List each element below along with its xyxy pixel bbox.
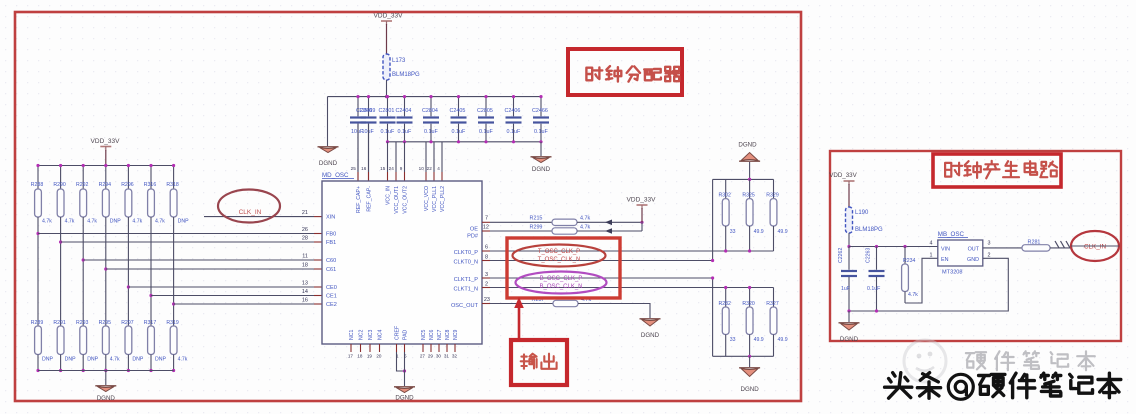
svg-text:L190: L190 [855,210,869,216]
wire top-group left drop [711,179,714,262]
watermark faint text [966,351,1095,370]
wire pull-down stub R291 [59,355,62,373]
svg-text:DNP: DNP [110,219,121,225]
wire bot-group left rise [711,276,714,356]
wire DGND branch (cap row right) [540,142,542,156]
svg-text:R297: R297 [121,320,134,326]
svg-text:VDD_33V: VDD_33V [627,197,657,204]
svg-text:R327: R327 [766,301,779,307]
svg-text:R319: R319 [166,320,179,326]
svg-text:16: 16 [302,298,308,304]
svg-text:R299: R299 [530,224,543,230]
wire column 4 [105,217,107,326]
wire net CLK_IN [204,216,322,218]
wire L190 to VIN bus [847,233,850,248]
svg-text:VCC_OUT2: VCC_OUT2 [403,186,409,214]
svg-text:DGND: DGND [740,386,759,393]
wire GND return [847,258,1008,312]
svg-text:33: 33 [730,229,736,235]
svg-text:DGND: DGND [738,142,757,149]
svg-text:VCC_PLL2: VCC_PLL2 [440,186,446,212]
pin name NC8 [445,330,451,340]
pin 21 label [302,210,308,216]
svg-text:VCC_IN: VCC_IN [386,186,392,205]
resistor R293 [76,320,99,363]
svg-text:19: 19 [367,354,373,359]
svg-text:CLKT0_P: CLKT0_P [454,250,479,256]
pin 2 label [988,252,991,258]
pin name FB1 [326,240,336,246]
svg-text:1: 1 [930,252,933,258]
svg-text:4.7k: 4.7k [580,225,590,231]
ground DGND (cap row left) [318,147,339,167]
svg-text:OE: OE [470,227,478,233]
node row5 junction [127,285,130,288]
svg-text:1uF: 1uF [841,286,850,292]
wire pull-up stub R316 [149,164,152,189]
svg-text:29: 29 [428,354,434,359]
pin 26 label [302,227,308,233]
pin name REF_CAP- [367,186,373,212]
node row6 junction [149,294,152,297]
svg-text:33: 33 [730,337,736,343]
resistor R316 [144,182,165,225]
resistor R289 [31,320,54,363]
svg-text:R318: R318 [166,182,179,188]
svg-text:REF_CAP-: REF_CAP- [367,186,373,212]
wire VCC pin 2 [387,142,389,172]
svg-text:DGND: DGND [395,395,414,402]
svg-text:C2801: C2801 [379,108,395,114]
pin name OSC_OUT [451,303,479,309]
capacitor C2406 [505,95,522,142]
svg-text:C2466: C2466 [532,108,548,114]
pin stub top x358 [357,172,359,181]
pin 14 label [302,289,308,295]
pin name XIN [326,215,335,221]
resistor R282 [718,288,735,357]
svg-text:NC5: NC5 [421,330,427,340]
svg-text:26: 26 [302,227,308,233]
pin name VCC_VCO [424,186,430,211]
svg-text:PD#: PD# [467,234,479,240]
wire OUT to R281 [983,247,1022,249]
svg-text:18: 18 [302,263,308,269]
svg-text:R290: R290 [53,182,66,188]
svg-text:14: 14 [302,289,308,295]
wire column 3 [82,217,84,326]
svg-text:BLM18PG: BLM18PG [392,72,420,78]
wire pull-up stub R290 [59,164,62,189]
svg-text:GND: GND [967,257,979,263]
pin name CLKT0_N [453,260,478,266]
svg-text:30: 30 [436,354,442,359]
pin name C60 [326,258,336,264]
svg-text:0.1uF: 0.1uF [381,129,395,135]
svg-text:R292: R292 [76,182,89,188]
svg-text:NC1: NC1 [349,330,355,340]
pin stub top x404.5 [404,172,406,181]
resistor R296 [121,182,142,225]
svg-text:XIN: XIN [326,215,335,221]
svg-text:NC9: NC9 [453,330,459,340]
svg-text:R288: R288 [31,182,44,188]
wire R234 to EN [905,258,938,303]
pin stub top x387.5 [387,172,389,181]
svg-text:C2263: C2263 [866,248,872,263]
svg-text:NC7: NC7 [437,330,443,340]
svg-text:4: 4 [930,241,933,247]
svg-text:MD_OSC: MD_OSC [322,172,349,179]
wire pull-up stub R292 [82,164,85,189]
pin stub bottom NC2 [360,344,362,352]
svg-text:9: 9 [400,166,403,171]
pin name CE0 [326,285,337,291]
pin stub top x434 [433,172,435,181]
svg-text:C2262: C2262 [838,248,844,263]
svg-text:4.7k: 4.7k [42,219,52,225]
svg-text:FB1: FB1 [326,240,336,246]
pin 1 label [930,252,933,258]
wire column 7 [173,217,175,326]
svg-text:DGND: DGND [532,166,551,173]
inductor L173 [383,54,420,80]
svg-text:R294: R294 [99,182,112,188]
svg-text:R289: R289 [31,320,44,326]
svg-text:4: 4 [437,166,440,171]
svg-text:OSC_OUT: OSC_OUT [451,303,479,309]
pin numbers (chip top) [351,166,441,171]
svg-text:C2404: C2404 [396,108,412,114]
clock generator frame [830,151,1121,341]
svg-text:15: 15 [380,166,386,171]
capacitor C2469 [360,95,377,181]
pin stub bottom NC4 [379,344,381,352]
pin name CE2 [326,302,337,308]
resistor R325 [742,179,763,251]
svg-text:R296: R296 [121,182,134,188]
pin 6 wire CLKT0_P [482,245,774,252]
resistor R329 [766,179,787,251]
svg-text:CREF: CREF [395,326,401,340]
svg-text:DNP: DNP [87,357,98,363]
pin stub bottom NC6 [430,344,432,352]
wire L173 to bus [385,80,388,98]
svg-text:FB0: FB0 [326,232,336,238]
svg-text:4.7k: 4.7k [908,292,918,298]
annotation arrow [514,297,524,339]
svg-text:C60: C60 [326,258,336,264]
svg-text:VCC_VCO: VCC_VCO [424,186,430,211]
wire column 2 [60,217,62,326]
svg-text:R325: R325 [742,193,755,199]
svg-text:BLM18PG: BLM18PG [855,227,883,233]
wire signal row 1 [38,233,322,235]
svg-text:13: 13 [302,281,308,287]
pin stub top x368.5 [368,172,370,181]
svg-text:0.1uF: 0.1uF [424,129,438,135]
svg-text:C2805: C2805 [477,108,493,114]
svg-text:CLK_IN: CLK_IN [1084,244,1107,251]
capacitor C2262 [838,247,857,312]
svg-text:PAD: PAD [403,329,409,340]
pin 4 label [930,241,933,247]
svg-text:11: 11 [302,254,308,260]
svg-text:0.1uF: 0.1uF [398,129,412,135]
power VDD_33V (pullup) [627,197,657,232]
svg-text:NC4: NC4 [378,330,384,340]
resistor R318 [166,182,189,225]
node bot-group taps [724,286,751,289]
svg-text:T_OSC_CLK_P: T_OSC_CLK_P [538,249,580,255]
svg-text:REF_CAP+: REF_CAP+ [356,186,362,213]
capacitor C2404 [396,95,413,142]
svg-text:EN: EN [941,257,949,263]
resistor R295 [99,320,120,363]
svg-text:C2406: C2406 [505,108,521,114]
wire VIN bus [849,245,938,248]
pin stub bottom NC3 [369,344,371,352]
annotation ellipse B pair [516,272,607,294]
wire to DGND (gen) [848,311,850,322]
node top-group taps [724,249,751,252]
svg-text:21: 21 [302,210,308,216]
pin name PAD [403,329,409,340]
wire pull-down stub R289 [36,355,39,373]
wire pull-down stub R293 [82,355,85,373]
wire signal row 2 [61,241,322,243]
wire column 5 [127,217,129,326]
svg-text:DNP: DNP [42,357,53,363]
svg-text:CLK_IN: CLK_IN [239,209,262,216]
pin 18 label [302,263,308,269]
node row1 junction [36,232,39,235]
pin 13 label [302,281,308,287]
ground DGND (cap row right) [531,157,552,173]
wire signal row 6 [151,295,322,297]
ground DGND (left bank) [95,386,116,402]
wire VCC pin 5 [425,142,427,172]
svg-text:6: 6 [485,245,488,251]
pin 11 label [302,254,308,260]
svg-text:R317: R317 [144,320,157,326]
pin stub bottom NC9 [454,344,456,352]
svg-text:B_OSC_CLK_N: B_OSC_CLK_N [539,284,582,290]
svg-text:R316: R316 [144,182,157,188]
svg-text:2: 2 [988,252,991,258]
svg-text:CE1: CE1 [326,294,337,300]
resistor R257 [532,297,592,307]
svg-text:25: 25 [351,166,357,171]
svg-text:NC3: NC3 [368,330,374,340]
svg-text:B_OSC_CLK_P: B_OSC_CLK_P [540,276,583,282]
wire signal row 3 [83,259,322,261]
pin name VCC_IN [386,186,392,205]
wire cap bottom bus [386,140,543,143]
wire bot-group gnd drop [749,356,751,367]
wire column 1 [37,217,39,326]
ground DGND (gen) [839,323,860,343]
wire pull-up stub R318 [172,164,175,189]
svg-text:MB_OSC: MB_OSC [938,231,965,238]
wire pull-up stub R296 [127,164,130,189]
annotation ellipse T pair [513,245,606,267]
capacitor C2405 [450,95,467,142]
pin numbers (chip bottom) [348,354,458,359]
wire column 6 [150,217,152,326]
power VDD_33V (top) [374,13,404,55]
pin name VCC_OUT2 [403,186,409,214]
svg-text:R295: R295 [99,320,112,326]
main schematic frame [15,12,801,401]
wire R215 to VDD node [577,220,644,226]
pin name CLKT1_N [453,287,478,293]
svg-text:4.7k: 4.7k [132,219,142,225]
wire pull-down stub R319 [172,355,175,373]
node row7 junction [172,302,175,305]
capacitor C2466 [532,95,549,142]
svg-text:R320: R320 [742,301,755,307]
pin stub bottom CREF [396,344,398,352]
pin name VCC_PLL2 [440,186,446,212]
svg-text:4.7k: 4.7k [155,219,165,225]
svg-text:0.1uF: 0.1uF [534,129,548,135]
wire pull-down stub R297 [127,355,130,373]
pin name VCC_PLL1 [432,186,438,212]
svg-text:C61: C61 [326,267,336,273]
wire R281 to CLK_IN [1050,241,1071,248]
svg-text:27: 27 [420,354,426,359]
wire VCC pin 4 [404,142,406,172]
ground DGND (osc out) [640,319,661,339]
resistor R327 [766,288,787,357]
resistor R320 [742,288,763,357]
svg-text:R234: R234 [903,258,916,264]
svg-text:NC6: NC6 [429,330,435,340]
node row3 junction [82,258,85,261]
svg-text:3: 3 [988,241,991,247]
svg-text:R215: R215 [530,216,543,222]
svg-text:DNP: DNP [178,219,189,225]
wire bot-group gnd bus [713,355,774,358]
svg-text:22: 22 [427,166,433,171]
svg-text:C2469: C2469 [360,108,376,114]
svg-text:R293: R293 [76,320,89,326]
svg-text:CLKT1_N: CLKT1_N [453,287,478,293]
resistor R317 [144,320,167,363]
svg-text:31: 31 [444,354,450,359]
pin name CREF [395,326,401,340]
svg-text:32: 32 [452,354,458,359]
wire PAD to DGND [404,352,406,386]
wire cap top bus [328,96,543,98]
svg-text:49.9: 49.9 [754,229,764,235]
resistor R294 [99,182,122,225]
svg-text:VIN: VIN [941,247,950,253]
svg-text:OUT: OUT [968,247,980,253]
pin 2 wire CLKT1_N [482,281,774,287]
wire R257 to DGND [578,304,650,319]
svg-text:4.7k: 4.7k [178,357,188,363]
svg-text:NC8: NC8 [445,330,451,340]
resistor R319 [166,320,187,363]
wire bottom bus (left bank) [38,370,174,372]
power VDD_33V (gen) [829,172,857,207]
wire signal row 7 [174,303,322,305]
wire VCC pin 3 [395,142,397,172]
svg-text:2: 2 [485,281,488,287]
svg-text:10: 10 [419,166,425,171]
wire top-group gnd bus [713,178,774,181]
wire VCC pin 6 [433,142,435,172]
pin stub top x442 [441,172,443,181]
pin name CE1 [326,294,337,300]
pin 3 label [988,241,991,247]
pin 7 wire [482,216,552,223]
node CLK_IN out ellipse [1071,231,1119,261]
pin name VCC_OUT1 [394,186,400,214]
svg-text:4.7k: 4.7k [65,219,75,225]
svg-text:0.1uF: 0.1uF [452,129,466,135]
capacitor C2804 [422,95,439,142]
svg-text:49.9: 49.9 [754,337,764,343]
svg-text:R329: R329 [766,193,779,199]
svg-text:49.9: 49.9 [778,337,788,343]
pin name CLKT0_P [454,250,479,256]
wire pull-down stub R317 [149,355,152,373]
svg-text:NC2: NC2 [359,330,365,340]
svg-text:0.1uF: 0.1uF [479,129,493,135]
pin name REF_CAP+ [356,186,362,213]
pin name NC3 [368,330,374,340]
resistor R281 [1022,240,1050,252]
svg-text:DGND: DGND [319,160,338,167]
svg-text:CLKT0_N: CLKT0_N [453,260,478,266]
svg-text:CLKT1_P: CLKT1_P [454,277,479,283]
capacitor C2801 [379,95,396,142]
wire signal row 5 [128,286,322,288]
node row4 junction [104,267,107,270]
svg-text:VDD_33V: VDD_33V [91,138,121,145]
resistor R290 [53,182,74,225]
annotation rect outputs [507,238,620,298]
pin name PD# [467,234,479,240]
label box clock-generator [933,154,1061,187]
wire top bus (left bank) [38,165,174,167]
wire to DGND (left bank) [105,371,107,386]
svg-text:L173: L173 [392,58,406,64]
oscillator MB_OSC [938,231,983,276]
pin name NC7 [437,330,443,340]
ground DGND (top group) [738,142,760,180]
svg-text:4.7k: 4.7k [87,219,97,225]
resistor R215 [530,216,591,226]
resistor R292 [76,182,97,225]
ground DGND (bottom group) [739,368,760,393]
svg-text:49.9: 49.9 [778,229,788,235]
wire signal row 4 [106,268,322,270]
power VDD_33V (left bank) [91,138,121,166]
svg-text:DGND: DGND [641,332,660,339]
svg-text:R291: R291 [53,320,66,326]
pin name NC5 [421,330,427,340]
svg-text:4.7k: 4.7k [110,357,120,363]
pin name OE [470,227,478,233]
pin stub bottom NC8 [446,344,448,352]
resistor R291 [53,320,76,363]
svg-text:R302: R302 [718,193,731,199]
svg-text:DNP: DNP [155,357,166,363]
